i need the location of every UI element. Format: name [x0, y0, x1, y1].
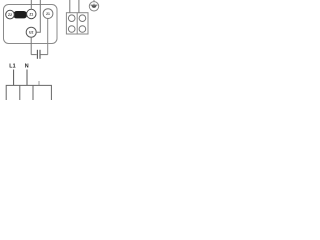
terminal 21: [43, 9, 53, 19]
wire from U2 down: [30, 37, 32, 54]
block terminal circles: [68, 15, 75, 22]
wire from Z1 up: [30, 0, 32, 9]
wire into block left: [69, 0, 71, 13]
control box outline: [4, 5, 58, 44]
wire L1: [13, 70, 15, 86]
terminal block housing: [66, 13, 88, 34]
jumper bridge bar: [13, 11, 27, 18]
plug connector contact bars: [36, 50, 38, 59]
terminal Z1: [27, 9, 36, 18]
earth stub wire: [38, 81, 40, 85]
svg-text:N: N: [25, 63, 29, 69]
plug connector right stub: [41, 54, 48, 56]
outdoor sensor symbol: [89, 0, 98, 11]
wire into block right: [78, 0, 80, 13]
wire from 21 down: [47, 19, 49, 55]
wire N: [26, 70, 28, 86]
mains terminal strip: [6, 85, 51, 100]
svg-text:Z2: Z2: [8, 13, 12, 17]
svg-text:Z1: Z1: [29, 12, 33, 16]
svg-text:21: 21: [46, 12, 50, 16]
svg-text:L1: L1: [9, 63, 15, 69]
plug connector left stub: [31, 54, 37, 56]
svg-text:U2: U2: [29, 31, 33, 35]
terminal Z2: [6, 10, 15, 19]
terminal U2: [26, 27, 36, 37]
wire from U2 right and up: [36, 0, 40, 32]
